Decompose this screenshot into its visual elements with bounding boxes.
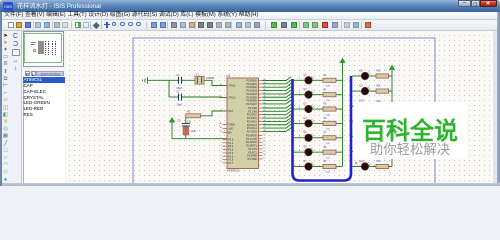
wire resistor R8 to supply rail [336, 151, 343, 153]
svg-text:10k: 10k [187, 120, 192, 123]
wire LED D6 to resistor [312, 151, 323, 153]
wire resistor R11 to supply rail [389, 90, 393, 92]
svg-text:P0.7/AD7: P0.7/AD7 [246, 103, 257, 106]
wire resistor R9 to supply rail [336, 166, 343, 168]
svg-text:D7: D7 [304, 160, 308, 163]
wire R1 to RST [201, 111, 228, 116]
LED D3 [304, 102, 315, 112]
crystal X1 [195, 72, 215, 84]
resistor R9 [323, 161, 336, 174]
wire resistor R16 to supply rail [389, 165, 393, 167]
svg-text:R8: R8 [324, 147, 328, 149]
wire LED D5 to resistor [312, 137, 323, 139]
LED D5 [304, 131, 315, 141]
power VCC arrow column 1 [340, 58, 346, 64]
svg-text:15: 15 [263, 151, 266, 153]
svg-text:R9: R9 [324, 161, 328, 163]
svg-text:XTAL2: XTAL2 [228, 97, 236, 100]
supply rail column 1 [342, 63, 344, 167]
capacitor C2 [169, 90, 183, 107]
capacitor C3 (electrolytic) [177, 116, 197, 139]
svg-text:7: 7 [299, 164, 301, 166]
wire LED D8 to resistor [369, 75, 377, 77]
svg-text:4: 4 [221, 148, 223, 150]
svg-text:R1: R1 [187, 110, 191, 114]
wire VCC rail bottom to chip [172, 138, 227, 140]
resistor R3 [323, 75, 336, 88]
svg-text:ALE: ALE [228, 128, 233, 131]
svg-text:U1: U1 [227, 74, 231, 78]
svg-text:P3.7/RD: P3.7/RD [248, 158, 257, 161]
wire resistor R6 to supply rail [336, 122, 343, 124]
resistor R12 [376, 101, 389, 108]
wire bus to LED D8 [352, 75, 362, 77]
LED D6 [304, 146, 315, 156]
LED D7 [304, 160, 315, 170]
svg-text:RST: RST [228, 110, 233, 113]
svg-text:R6: R6 [324, 118, 328, 120]
wire LED D7 to resistor [312, 166, 323, 168]
svg-text:10uF: 10uF [191, 130, 197, 133]
svg-text:3: 3 [221, 145, 223, 147]
svg-text:C1: C1 [176, 73, 180, 77]
svg-text:D2: D2 [304, 88, 308, 91]
left mode toolbar [2, 33, 9, 40]
svg-text:2: 2 [299, 92, 301, 94]
wire bus to LED D13 [352, 150, 362, 152]
wires P0 pins to bus [263, 77, 292, 104]
svg-text:D5: D5 [304, 131, 308, 134]
resistor R6 [323, 118, 336, 131]
wire bus to LED D5 [294, 136, 305, 138]
svg-text:D14: D14 [360, 160, 365, 163]
resistor R16 [376, 161, 389, 169]
LED D2 [304, 88, 315, 98]
svg-text:D4: D4 [304, 117, 308, 120]
svg-text:5: 5 [221, 152, 223, 154]
svg-text:220: 220 [326, 157, 330, 159]
wire LED D12 to resistor [369, 135, 377, 137]
svg-text:D1: D1 [304, 74, 308, 77]
op-amp n/a; MCU U1 AT89C51 [219, 74, 266, 173]
svg-text:D9: D9 [360, 84, 364, 87]
svg-text:R7: R7 [324, 132, 328, 134]
wire bus to LED D9 [352, 90, 362, 92]
wire bus to LED D4 [294, 121, 305, 123]
svg-text:31: 31 [219, 131, 222, 133]
resistor R14 [376, 131, 389, 139]
LED D14 [360, 160, 371, 170]
svg-text:EA: EA [228, 132, 232, 135]
svg-text:6: 6 [221, 155, 223, 157]
resistor R8 [323, 147, 336, 160]
wire C1 to crystal [182, 79, 196, 81]
power VCC arrow column 2 [389, 65, 395, 71]
resistor R4 [323, 89, 336, 102]
svg-text:220: 220 [326, 114, 330, 116]
wire LED D4 to resistor [312, 122, 323, 124]
wire bus to LED D2 [294, 92, 305, 94]
svg-text:14: 14 [263, 148, 266, 150]
LED D10 [360, 100, 371, 110]
node mark bottom row [355, 162, 357, 164]
svg-text:16: 16 [263, 154, 266, 156]
wire common vertical [168, 80, 170, 97]
wire resistor R7 to supply rail [336, 137, 343, 139]
resistor R1 [186, 110, 201, 124]
svg-text:XTAL1: XTAL1 [228, 85, 236, 88]
wire resistor R3 to supply rail [336, 79, 343, 81]
wire ground to C1/C2 common [148, 79, 170, 81]
wire crystal to XTAL1 [204, 80, 227, 85]
svg-text:6: 6 [299, 150, 301, 152]
svg-text:P1.7: P1.7 [228, 162, 234, 165]
svg-text:7: 7 [221, 158, 223, 160]
wire LED D9 to resistor [369, 90, 377, 92]
ground [143, 77, 148, 84]
wire LED D11 to resistor [369, 120, 377, 122]
wire resistor R4 to supply rail [336, 94, 343, 96]
svg-text:R3: R3 [324, 75, 328, 77]
svg-text:C2: C2 [176, 90, 180, 94]
wire LED D14 to resistor [369, 165, 377, 167]
svg-text:D6: D6 [304, 146, 308, 149]
wire LED D3 to resistor [312, 108, 323, 110]
svg-text:220: 220 [326, 172, 330, 174]
wire bus to LED D3 [294, 107, 305, 109]
wire resistor R15 to supply rail [389, 150, 393, 152]
LED D9 [360, 84, 371, 94]
LED D11 [360, 115, 371, 125]
svg-text:10: 10 [263, 134, 266, 136]
power VCC arrow (reset) [169, 117, 175, 139]
LED D8 [360, 69, 371, 79]
svg-text:30pF: 30pF [177, 104, 183, 107]
supply rail column 2 [391, 70, 393, 167]
svg-text:R4: R4 [324, 89, 328, 91]
wire resistor R12 to supply rail [389, 105, 393, 107]
svg-text:220: 220 [326, 129, 330, 131]
svg-text:12MHZ: 12MHZ [206, 77, 215, 80]
resistor R13 [376, 116, 389, 124]
resistor R11 [376, 86, 389, 94]
wire bus to LED D7 [294, 164, 305, 166]
resistor R15 [376, 146, 389, 154]
LED D1 [304, 74, 315, 84]
svg-text:220: 220 [326, 143, 330, 145]
wire resistor R14 to supply rail [389, 135, 393, 137]
svg-text:R5: R5 [324, 104, 328, 106]
wire bus to LED D14 [352, 165, 362, 167]
svg-text:D3: D3 [304, 102, 308, 105]
svg-text:30: 30 [219, 127, 222, 129]
svg-text:X1: X1 [196, 72, 200, 76]
wire LED D1 to resistor [312, 79, 323, 81]
svg-text:AT89C51: AT89C51 [227, 169, 240, 173]
svg-text:13: 13 [263, 144, 266, 146]
svg-text:R16: R16 [377, 161, 382, 163]
wire LED D10 to resistor [369, 105, 377, 107]
svg-text:4: 4 [299, 121, 301, 123]
wire bus to LED D10 [352, 105, 362, 107]
capacitor C1 [169, 73, 183, 90]
svg-text:8: 8 [221, 162, 223, 164]
svg-text:17: 17 [263, 158, 266, 160]
resistor R5 [323, 104, 336, 117]
svg-text:5: 5 [299, 136, 301, 138]
wire bus to LED D11 [352, 120, 362, 122]
wire bus to LED D6 [294, 150, 305, 152]
wires P2 pins to bus [263, 104, 292, 131]
LED D13 [360, 145, 371, 155]
svg-text:3: 3 [299, 107, 301, 109]
svg-text:12: 12 [263, 141, 266, 143]
svg-text:29: 29 [219, 123, 222, 125]
bus (P0/P2 to LED columns) [293, 76, 352, 181]
svg-text:220: 220 [326, 100, 330, 102]
svg-text:11: 11 [263, 137, 266, 139]
wire bus to LED D12 [352, 135, 362, 137]
wire LED D13 to resistor [369, 150, 377, 152]
svg-text:D8: D8 [360, 69, 364, 72]
svg-text:P2.7/A15: P2.7/A15 [247, 130, 258, 133]
LED D12 [360, 130, 371, 140]
wire C2 to XTAL2 [182, 96, 228, 99]
svg-text:R11: R11 [377, 86, 382, 88]
svg-text:220: 220 [326, 86, 330, 88]
svg-text:2: 2 [221, 141, 223, 143]
svg-text:R10: R10 [377, 71, 382, 73]
resistor R7 [323, 132, 336, 145]
resistor R10 [376, 71, 389, 79]
svg-text:PSEN: PSEN [228, 124, 235, 127]
wire bus to LED D1 [294, 78, 305, 80]
wire resistor R5 to supply rail [336, 108, 343, 110]
svg-text:C3: C3 [177, 119, 181, 123]
LED D4 [304, 117, 315, 127]
wire resistor R13 to supply rail [389, 120, 393, 122]
svg-text:1: 1 [299, 78, 301, 80]
sheet border [133, 38, 435, 186]
wire LED D2 to resistor [312, 94, 323, 96]
wire resistor R10 to supply rail [389, 75, 393, 77]
